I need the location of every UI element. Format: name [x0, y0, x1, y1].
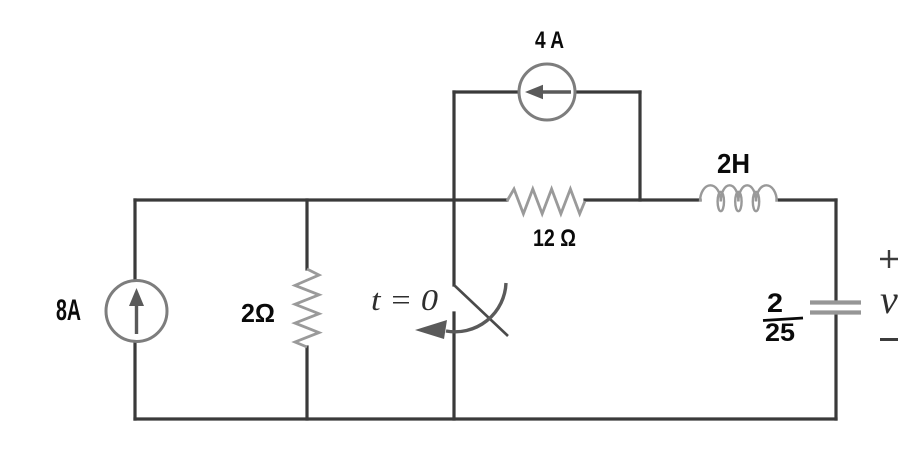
svg-text:v: v — [880, 277, 898, 322]
wire 2-ohm upper stem — [305, 200, 308, 269]
svg-text:25: 25 — [765, 319, 795, 347]
svg-text:2H: 2H — [717, 148, 750, 179]
wire switch lower stub — [452, 313, 455, 419]
current source I2 4A circle — [519, 64, 575, 120]
wire top-right horizontal — [777, 198, 836, 201]
svg-text:t = 0: t = 0 — [371, 282, 439, 317]
wire 2-ohm lower stem — [305, 347, 308, 419]
resistor R 12ohm horizontal zigzag — [507, 189, 585, 214]
switch SW motion arc — [446, 283, 506, 332]
label minus — [880, 338, 898, 341]
wire top-middle horizontal — [585, 198, 700, 201]
wire left vertical — [133, 200, 136, 419]
switch SW blade — [454, 285, 508, 336]
label plus — [880, 250, 898, 268]
svg-text:2: 2 — [767, 288, 783, 318]
inductor L 2H coils — [700, 185, 777, 211]
wire 4A loop right leg — [638, 92, 641, 200]
wire 4A loop left leg — [452, 92, 455, 285]
wire bottom horizontal — [135, 417, 836, 420]
capacitor C 2/25 plates — [810, 300, 861, 304]
svg-text:12 Ω: 12 Ω — [533, 225, 576, 252]
wire top-left horizontal — [135, 198, 507, 201]
wire right vertical lower — [834, 313, 837, 419]
svg-text:2Ω: 2Ω — [241, 298, 275, 328]
wire right vertical upper — [834, 200, 837, 302]
svg-text:8A: 8A — [56, 294, 81, 327]
switch SW arc arrowhead — [415, 320, 447, 339]
current source I1 8A circle — [106, 281, 167, 342]
svg-text:4 A: 4 A — [535, 27, 564, 54]
wire 4A loop top — [454, 90, 640, 93]
current source I1 8A arrow — [135, 301, 138, 334]
resistor R 2ohm vertical zigzag — [295, 269, 319, 347]
current source I2 4A arrow — [537, 90, 571, 94]
